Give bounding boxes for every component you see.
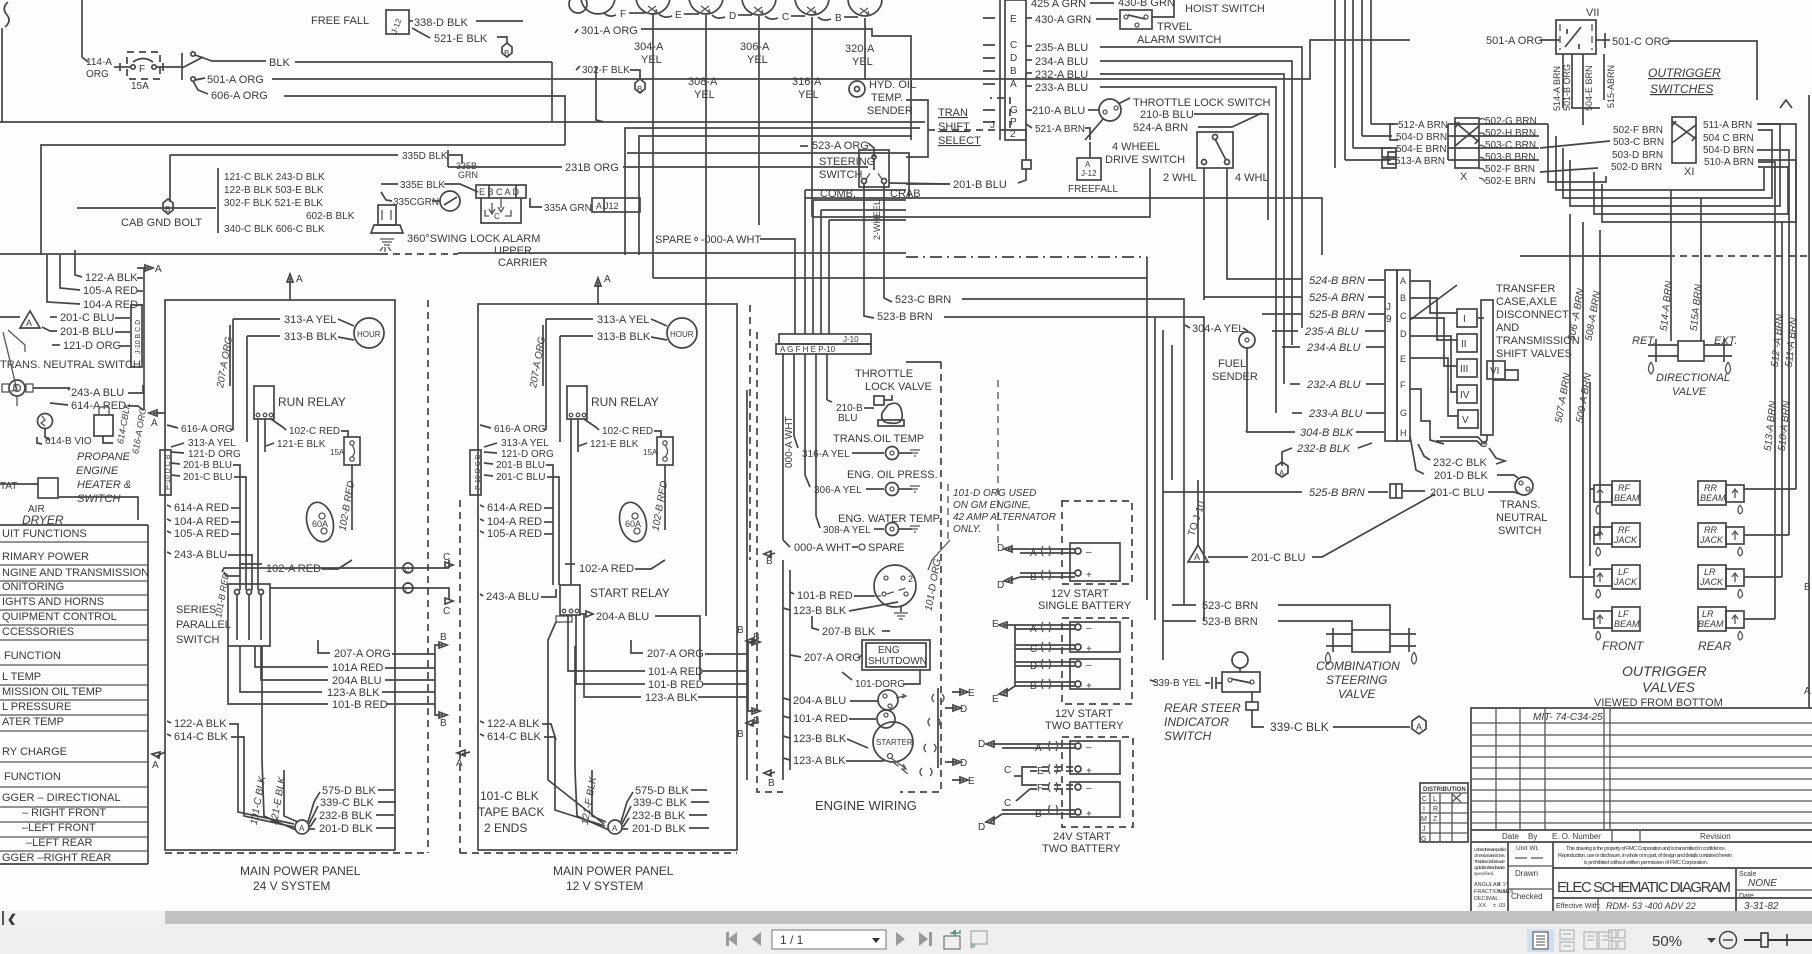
wire 201-B BLU to crab (1007, 130, 1026, 160)
svg-text:313-A YEL: 313-A YEL (501, 438, 549, 449)
svg-text:360°SWING LOCK ALARM: 360°SWING LOCK ALARM (407, 233, 540, 245)
svg-text:B: B (766, 556, 773, 567)
svg-text:12V START: 12V START (1051, 588, 1109, 600)
svg-text:521-A BRN: 521-A BRN (1035, 124, 1085, 135)
travel alarm switch box (1120, 10, 1152, 29)
24V panel dashed bottom (165, 852, 428, 854)
svg-text:24 V SYSTEM: 24 V SYSTEM (253, 879, 330, 893)
svg-text:339-C BLK: 339-C BLK (320, 797, 374, 809)
svg-text:B: B (835, 13, 842, 24)
svg-text:❮: ❮ (7, 912, 17, 927)
svg-text:YEL: YEL (641, 54, 662, 66)
svg-text:OUTRIGGER: OUTRIGGER (1622, 663, 1707, 679)
svg-text:HOUR: HOUR (357, 330, 381, 339)
VII switch leg 504-E BRN (1582, 54, 1584, 125)
svg-text:503-D BRN: 503-D BRN (1612, 150, 1663, 161)
svg-text:TAT: TAT (0, 481, 17, 492)
svg-text:SWITCH: SWITCH (1498, 525, 1541, 537)
svg-text:LF: LF (1618, 609, 1629, 619)
title col dividers bottom (1507, 842, 1509, 912)
right bundle verticals (1758, 162, 1775, 619)
svg-text:A: A (1010, 79, 1017, 90)
svg-text:501-B ORG: 501-B ORG (1562, 64, 1572, 111)
battery2 dashed box (1062, 618, 1132, 704)
connector box pair X side (1382, 148, 1396, 157)
svg-text:L TEMP: L TEMP (2, 671, 41, 683)
start relay 12V (560, 585, 580, 615)
svg-text:575-D BLK: 575-D BLK (322, 785, 376, 797)
svg-text:RF: RF (1618, 483, 1630, 493)
wire 122-A BLK left (75, 250, 82, 277)
svg-text:B: B (165, 205, 170, 214)
fan wire 232-B BLK 12V (623, 818, 629, 827)
svg-text:102-C RED: 102-C RED (602, 426, 653, 437)
svg-text:ELEC SCHEMATIC DIAGRAM: ELEC SCHEMATIC DIAGRAM (1557, 879, 1731, 896)
svg-text:201-B BLU: 201-B BLU (496, 460, 545, 471)
svg-text:501-A ORG: 501-A ORG (207, 74, 264, 86)
valve RF BEAM (1612, 481, 1640, 505)
svg-text:24V START: 24V START (1053, 831, 1111, 843)
single page layout button (active) (1527, 929, 1554, 952)
breaker 60A 24V (303, 499, 338, 544)
svg-text:504-E BRN: 504-E BRN (1396, 144, 1447, 155)
connector J-10 BCD bar left (131, 305, 142, 367)
wires X left side (1390, 124, 1398, 140)
svg-text:FRONT: FRONT (1602, 639, 1645, 653)
horizontal scrollbar thumb (165, 911, 1812, 924)
svg-text:–: – (1086, 660, 1092, 671)
svg-text:42 AMP ALTERNATOR: 42 AMP ALTERNATOR (953, 512, 1056, 523)
svg-text:A: A (26, 318, 32, 328)
svg-text:JACK: JACK (1613, 577, 1638, 587)
wire 616-A ORG 24V (167, 425, 178, 428)
svg-text:233-A BLU: 233-A BLU (1035, 82, 1088, 94)
svg-text:TRAN: TRAN (938, 107, 968, 119)
svg-text:A G F H E P-10: A G F H E P-10 (780, 345, 836, 354)
rotate cw icon (971, 931, 987, 949)
svg-text:C: C (782, 12, 789, 23)
svg-text:243-A BLU: 243-A BLU (486, 591, 539, 603)
svg-text:Date: Date (1502, 832, 1519, 841)
svg-text:502-H BRN: 502-H BRN (1485, 128, 1536, 139)
svg-text:B: B (1030, 681, 1037, 692)
svg-text:RF: RF (1618, 525, 1630, 535)
svg-text:FREE FALL: FREE FALL (311, 15, 369, 27)
svg-text:306-A YEL: 306-A YEL (814, 485, 862, 496)
gauge circle C (795, 0, 829, 15)
svg-text:FUNCTION: FUNCTION (4, 650, 61, 662)
svg-text:614-A RED: 614-A RED (174, 502, 229, 514)
terminal B cab gnd bolt (163, 199, 173, 214)
svg-text:STARTER: STARTER (876, 738, 913, 747)
wire 614-C BLK 24V (167, 734, 171, 736)
wire 102-C RED 24V (284, 428, 286, 430)
svg-text:524-B BRN: 524-B BRN (1309, 275, 1365, 287)
svg-text:NONE: NONE (1748, 878, 1777, 889)
wire 525-A BRN (1204, 296, 1302, 298)
steering switch box (859, 150, 889, 187)
svg-text:SERIES: SERIES (176, 604, 216, 616)
svg-text:D: D (1400, 329, 1407, 339)
SCHEMATIC-BODY (0, 0, 1410, 278)
svg-text:523-B BRN: 523-B BRN (1202, 616, 1258, 628)
svg-text:COMBINATION: COMBINATION (1316, 659, 1400, 673)
wire 201-C BLU left (50, 316, 57, 318)
thermostat box (38, 478, 58, 498)
hour meter 12V (667, 318, 697, 348)
battery3 D arrows (986, 741, 1002, 747)
svg-text:4 WHL: 4 WHL (1235, 172, 1269, 184)
GM engine note dashed box (947, 484, 949, 540)
svg-text:616-A ORG: 616-A ORG (181, 424, 233, 435)
wire 506-A BRN vertical (1582, 222, 1584, 608)
svg-text:E B C A D: E B C A D (479, 187, 520, 197)
swing lock gauge (440, 191, 460, 211)
label 304-A YEL fuel (1185, 325, 1190, 328)
svg-text:616-A ORG: 616-A ORG (130, 407, 148, 455)
gauge drop wire B sender (864, 18, 866, 80)
svg-text:339-C BLK: 339-C BLK (633, 797, 687, 809)
svg-text:105-A RED: 105-A RED (83, 285, 138, 297)
svg-text:L PRESSURE: L PRESSURE (2, 701, 71, 713)
bus line y198 (805, 198, 1322, 255)
wire 123-B BLK starter (783, 736, 790, 738)
svg-text:+: + (1086, 766, 1092, 777)
svg-text:MAIN POWER PANEL: MAIN POWER PANEL (240, 864, 361, 878)
relay feed wires 12V (545, 319, 547, 430)
svg-text:614-C BLK: 614-C BLK (487, 731, 541, 743)
svg-text:–: – (1086, 623, 1092, 634)
svg-text:201-D BLK: 201-D BLK (319, 823, 373, 835)
svg-text:A: A (151, 418, 158, 429)
svg-text:Checked: Checked (1511, 892, 1543, 901)
svg-text:502-F BRN: 502-F BRN (1485, 164, 1535, 175)
connector JP2 body (999, 0, 1001, 140)
svg-text:E: E (1010, 14, 1017, 25)
svg-text:RR: RR (1704, 483, 1717, 493)
trans neutral switch circle left (9, 380, 25, 396)
two page layout button (1584, 932, 1612, 949)
terminal B hex (502, 43, 512, 57)
zoom slider track (1744, 939, 1812, 941)
wire 101-A RED engine (783, 716, 790, 718)
battery2 leads (1015, 624, 1075, 626)
arrow E engine lower (952, 777, 968, 783)
svg-text:QUIPMENT CONTROL: QUIPMENT CONTROL (2, 611, 117, 623)
wire 105-A RED 12V (480, 531, 484, 533)
wire 114-A ORG vertical from top (82, 0, 88, 62)
svg-text:V: V (1462, 415, 1469, 426)
prev page button (752, 932, 761, 946)
svg-text:339-B YEL: 339-B YEL (1153, 678, 1202, 689)
connector J9 body (1385, 270, 1397, 441)
svg-text:C: C (1422, 796, 1427, 803)
svg-text:201-C BLU: 201-C BLU (60, 312, 114, 324)
svg-text:102-A RED: 102-A RED (266, 563, 321, 575)
svg-text:ONLY.: ONLY. (953, 524, 981, 535)
svg-text:IV: IV (1460, 390, 1470, 401)
svg-text:D: D (978, 739, 985, 750)
svg-text:SHUTDOWN: SHUTDOWN (868, 656, 927, 667)
svg-text:NGINE AND TRANSMISSION: NGINE AND TRANSMISSION (2, 567, 149, 579)
svg-text:J-10 B C D: J-10 B C D (135, 320, 142, 354)
steering switch legs (863, 184, 865, 255)
svg-text:A: A (1030, 624, 1037, 635)
svg-text:SENDER: SENDER (1212, 371, 1258, 383)
svg-text:101-A RED: 101-A RED (793, 713, 848, 725)
svg-text:204-A BLU: 204-A BLU (793, 695, 846, 707)
svg-text:RUN RELAY: RUN RELAY (591, 395, 659, 409)
wire 512-A BRN vertical right col (1757, 150, 1789, 535)
svg-text:GGER –RIGHT REAR: GGER –RIGHT REAR (2, 852, 111, 864)
svg-text:THROTTLE LOCK SWITCH: THROTTLE LOCK SWITCH (1133, 97, 1271, 109)
wire J10-H drop (815, 354, 817, 516)
svg-text:SWITCH: SWITCH (176, 634, 219, 646)
gauge circle F (636, 0, 670, 14)
svg-text:Z: Z (1433, 816, 1438, 823)
J-10 harness wire E (828, 220, 830, 334)
wire 525-B BRN (1262, 313, 1302, 315)
sender 306-A YEL (805, 475, 810, 487)
valve IV box (1457, 385, 1477, 403)
wire 101-B RED engine (790, 592, 794, 594)
wire 232-C BLK (1418, 444, 1430, 460)
svg-text:F: F (620, 9, 626, 20)
panels outer top line y278 (653, 277, 1147, 279)
A arrow up 24V panel (287, 274, 293, 300)
wire 504-E lead (1353, 147, 1392, 149)
gauge circle E (689, 0, 723, 14)
svg-text:A: A (155, 264, 162, 275)
svg-text:15A: 15A (643, 448, 658, 457)
run relay 24V (254, 386, 274, 419)
page edge curl glyph top-left (4, 2, 9, 27)
sender 316-A YEL (794, 436, 798, 448)
wire 102-B RED rotated 12V (664, 465, 666, 530)
connector EBCAD box (476, 185, 526, 198)
svg-text:Date: Date (1739, 893, 1754, 900)
svg-text:JACK: JACK (1699, 577, 1724, 587)
wire 2WHL leg (1203, 168, 1205, 300)
engine right bracket (937, 688, 939, 768)
gauge drop wire D (758, 16, 760, 225)
starter output dashes (891, 758, 906, 769)
svg-text:This drawing is the property o: This drawing is the property of FMC Corp… (1566, 846, 1726, 852)
svg-text:BEAM: BEAM (1614, 619, 1640, 629)
svg-text:514-A BRN: 514-A BRN (1659, 280, 1675, 332)
svg-text:ORG: ORG (86, 69, 109, 80)
wire 121-E BLK 24V (266, 443, 274, 446)
svg-text:201-C BLU: 201-C BLU (496, 472, 545, 483)
svg-text:The tolerances below are: The tolerances below are (1474, 859, 1505, 865)
wire 4WHL leg (1227, 168, 1240, 279)
svg-text:Scale: Scale (1739, 871, 1757, 878)
center equipment box outer (625, 128, 920, 255)
battery3 dashed box (1062, 737, 1133, 827)
svg-text:C: C (494, 212, 500, 221)
svg-text:313-A YEL: 313-A YEL (188, 438, 236, 449)
connector A J12 box (592, 198, 640, 212)
gauge circle B (848, 0, 882, 16)
wire J10-E drop (826, 354, 828, 400)
wire 335C GRN (381, 192, 392, 201)
wire 313-A YEL 12V (546, 318, 593, 320)
svg-text:TWO BATTERY: TWO BATTERY (1045, 720, 1124, 732)
svg-text:313-A YEL: 313-A YEL (284, 314, 336, 326)
wire 523-C BRN lower (1172, 604, 1196, 606)
J9 diagonal wire (1410, 285, 1457, 320)
B flag engine lower (764, 770, 775, 776)
svg-text:235-A BLU: 235-A BLU (1035, 42, 1088, 54)
wire 514-A BRN vertical right (1670, 190, 1672, 341)
wire 614-A RED 12V (480, 505, 484, 507)
battery3 cell top (1070, 741, 1120, 774)
J-10 harness wire F (812, 200, 814, 334)
triangle A warning left (20, 311, 40, 328)
page number box (772, 930, 886, 949)
svg-text:201-B BLU: 201-B BLU (953, 179, 1007, 191)
throttle lock switch circle (1099, 99, 1121, 121)
battery2 E arrows (999, 622, 1015, 628)
svg-text:C: C (1400, 311, 1407, 321)
top harness vertical 1353 (1352, 0, 1354, 148)
svg-text:XI: XI (1684, 166, 1694, 178)
svg-text:B: B (1035, 809, 1042, 820)
svg-text:4 WHEEL: 4 WHEEL (1112, 141, 1160, 153)
svg-text:SENDER: SENDER (867, 105, 913, 117)
nest bracket wires below switches (1448, 123, 1548, 125)
svg-text:121-C BLK 243-D BLK: 121-C BLK 243-D BLK (224, 172, 325, 183)
svg-text:201-B BLU: 201-B BLU (183, 460, 232, 471)
battery2 cell top (1070, 622, 1120, 652)
svg-text:SWITCH: SWITCH (77, 493, 120, 505)
two page scroll layout button (1609, 930, 1625, 949)
connector JP2 ticks (983, 18, 995, 122)
svg-text:–: – (1086, 783, 1092, 794)
svg-text:121-D ORG: 121-D ORG (188, 449, 241, 460)
wire 201-C BLU 24V (171, 475, 180, 476)
svg-text:VALVES: VALVES (1642, 679, 1696, 695)
run relay 12V (567, 386, 587, 419)
wire 102-B RED rotated 24V (351, 465, 353, 530)
svg-text:E: E (992, 694, 999, 705)
svg-text:201-C BLU: 201-C BLU (1430, 487, 1484, 499)
svg-text:DISCONNECT: DISCONNECT (1496, 309, 1569, 321)
svg-text:3-31-82: 3-31-82 (1744, 901, 1779, 912)
valve II box (1457, 334, 1477, 352)
svg-text:304-A YEL: 304-A YEL (1192, 323, 1244, 335)
battery2 cell bottom (1070, 659, 1120, 689)
svg-text:+: + (1086, 644, 1092, 655)
wire 513-A lead (1345, 159, 1391, 161)
svg-text:210-A BLU: 210-A BLU (1032, 105, 1085, 117)
B bracket 24V (434, 650, 436, 710)
svg-text:102-B RED: 102-B RED (651, 480, 671, 532)
svg-text:521-E BLK: 521-E BLK (434, 33, 488, 45)
wire 313-A YEL 24V (233, 318, 280, 320)
svg-text:RDM- 53 -400 ADV 22: RDM- 53 -400 ADV 22 (1606, 901, 1696, 911)
connector P-10 12V (470, 450, 481, 495)
svg-text:THROTTLE: THROTTLE (855, 368, 913, 380)
svg-text:102-A RED: 102-A RED (579, 563, 634, 575)
svg-text:105-A RED: 105-A RED (174, 528, 229, 540)
wire 204-A BLU engine (783, 698, 790, 700)
svg-text:CAB GND BOLT: CAB GND BOLT (121, 217, 202, 229)
svg-text:TAPE BACK: TAPE BACK (478, 805, 544, 819)
svg-text:235-A BLU: 235-A BLU (1304, 326, 1358, 338)
svg-text:504 C BRN: 504 C BRN (1703, 133, 1754, 144)
series parallel switch assembly (228, 584, 270, 646)
svg-text:121-D ORG: 121-D ORG (501, 449, 554, 460)
fuse leads (114, 66, 130, 68)
svg-text:SELECT: SELECT (938, 135, 981, 147)
propane heater resistor (38, 414, 53, 429)
svg-text:511-A BRN: 511-A BRN (1784, 316, 1800, 367)
svg-text:STEERING: STEERING (1326, 673, 1387, 687)
svg-text:CASE,AXLE: CASE,AXLE (1496, 296, 1557, 308)
svg-text:201-D BLK: 201-D BLK (1434, 470, 1488, 482)
svg-text:UIT FUNCTIONS: UIT FUNCTIONS (2, 528, 87, 540)
svg-text:207-B BLK: 207-B BLK (822, 626, 876, 638)
nest staircase horizontals (1548, 124, 1606, 182)
wire 102-A RED 24V (240, 563, 262, 565)
svg-text:101-A RED: 101-A RED (648, 666, 703, 678)
svg-text:A: A (456, 758, 463, 769)
wire 338-D BLK (409, 20, 413, 22)
svg-text:ATER TEMP: ATER TEMP (2, 716, 64, 728)
rear steer switch box (1222, 672, 1260, 692)
battery3 leads (1002, 743, 1075, 745)
wire 304-B BLK j9 (1246, 431, 1295, 433)
svg-text:523-C BRN: 523-C BRN (895, 294, 951, 306)
svg-text:RUN RELAY: RUN RELAY (278, 395, 346, 409)
J-10 harness wire H (820, 210, 822, 334)
vertical feed right of 12V panel (746, 390, 748, 780)
svg-text:A: A (299, 824, 305, 833)
switch output wires to C bracket (222, 568, 437, 572)
svg-text:ENGINE: ENGINE (76, 465, 119, 477)
bus line y122 full width (0, 121, 925, 123)
svg-text:207-A ORG: 207-A ORG (334, 648, 391, 660)
wire 524-B BRN (1240, 278, 1302, 280)
svg-text:207-A ORG: 207-A ORG (528, 336, 548, 390)
svg-text:Unit Wt.: Unit Wt. (1516, 845, 1539, 852)
svg-text:123-A BLK: 123-A BLK (327, 687, 380, 699)
svg-text:IGHTS AND HORNS: IGHTS AND HORNS (2, 596, 104, 608)
svg-text:301-A ORG: 301-A ORG (581, 25, 638, 37)
svg-text:A: A (296, 274, 303, 285)
wire 201-B BLU 12V (484, 463, 493, 464)
A arrow up 12V panel (595, 278, 601, 304)
selector switch common pole (181, 53, 183, 80)
wire 234-A BLU j9 (1282, 346, 1300, 348)
svg-text:STEERING: STEERING (819, 156, 875, 168)
svg-text:525-B BRN: 525-B BRN (1309, 487, 1365, 499)
wire 201-C BLU upper (1402, 490, 1425, 492)
svg-text:B: B (737, 625, 744, 636)
svg-text:SWITCH: SWITCH (1164, 729, 1212, 743)
wire 234-A BLU (1026, 59, 1032, 61)
gauge chain letters (604, 13, 616, 16)
svg-text:PARALLEL: PARALLEL (176, 619, 231, 631)
nest wire 503-C cross (1540, 141, 1610, 148)
svg-text:J-12: J-12 (1081, 169, 1097, 178)
svg-text:NEUTRAL: NEUTRAL (1496, 512, 1547, 524)
svg-text:504-D BRN: 504-D BRN (1703, 145, 1754, 156)
svg-text:E: E (675, 10, 682, 21)
svg-text:121-E BLK: 121-E BLK (277, 439, 326, 450)
cab gnd bolt wire (77, 207, 216, 209)
